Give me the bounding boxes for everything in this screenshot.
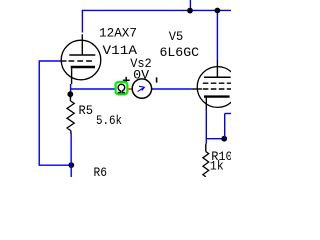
V5 cathode bar — [204, 95, 230, 97]
wire exit right edge — [225, 113, 231, 115]
resistor R10 top lead — [205, 144, 207, 152]
source Vs2 arrow glyph — [138, 86, 145, 91]
triode V11A envelope — [61, 40, 101, 80]
V11A cathode lead pin 3 — [71, 67, 73, 84]
V5 plate lead — [216, 60, 218, 77]
svg-text:V5: V5 — [169, 29, 184, 44]
node junction dot bottom left — [68, 162, 74, 168]
wire V11A cathode vertical — [70, 84, 72, 98]
wire red segment probe to source — [127, 88, 132, 90]
svg-text:0V: 0V — [133, 67, 149, 82]
wire Vs2 to V5 grid — [151, 88, 191, 90]
wire bottom exit to edge — [70, 165, 72, 177]
svg-text:R5: R5 — [79, 103, 94, 118]
V11A grid dashes — [69, 60, 92, 62]
V5 control grid dashes — [203, 88, 231, 90]
V5 cathode lead — [205, 97, 207, 110]
V5 control grid lead — [191, 88, 202, 90]
V11A plate lead pin 1 — [81, 34, 83, 55]
node junction dot top rail B — [215, 8, 221, 14]
node junction dot top rail A — [187, 8, 193, 14]
wire stub from top edge — [189, 0, 191, 10]
svg-text:5.6k: 5.6k — [96, 113, 122, 128]
wire V5 cathode down — [205, 109, 207, 144]
node junction dot bottom right — [221, 136, 227, 142]
svg-text:1k: 1k — [210, 159, 224, 174]
resistor R5 body — [67, 101, 74, 131]
source Vs2 circle — [132, 79, 151, 98]
V5 screen grid dashes — [203, 82, 231, 84]
wire top horizontal B+ rail — [82, 10, 231, 32]
resistor R10 body — [203, 152, 209, 177]
V5 plate bar — [204, 76, 231, 78]
wire grid of V11A to left bus — [39, 61, 71, 165]
pentode V5 envelope — [197, 67, 238, 108]
node cathode junction dot — [67, 91, 73, 97]
svg-text:R6: R6 — [94, 165, 108, 177]
V11A grid lead pin 2 — [61, 60, 67, 62]
V11A plate bar — [69, 54, 95, 56]
wire cathode to Vs2 probe — [71, 88, 116, 90]
current probe green box — [116, 82, 128, 94]
wire up from dot — [224, 114, 226, 139]
source Vs2 plus polarity — [123, 77, 130, 83]
resistor R5 top lead — [69, 96, 71, 101]
V11A cathode bar — [71, 66, 95, 68]
svg-text:12AX7: 12AX7 — [99, 25, 137, 40]
current probe ohm glyph — [118, 84, 125, 92]
resistor R5 bottom lead — [70, 131, 72, 135]
svg-text:6L6GC: 6L6GC — [160, 45, 200, 60]
wire cathode horizontal — [206, 138, 224, 140]
source Vs2 minus tick — [156, 77, 158, 82]
wire below R5 — [70, 134, 72, 166]
wire V5 plate drop — [216, 10, 218, 60]
